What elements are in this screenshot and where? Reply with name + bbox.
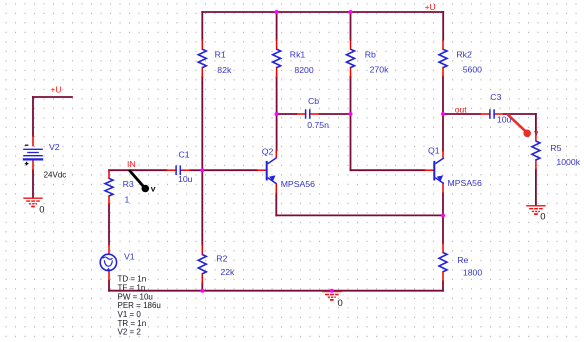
svg-text:Rb: Rb bbox=[365, 50, 376, 60]
svg-text:v: v bbox=[151, 184, 156, 194]
svg-text:10u: 10u bbox=[497, 115, 512, 125]
svg-text:22k: 22k bbox=[220, 267, 235, 277]
svg-text:R5: R5 bbox=[550, 143, 561, 153]
svg-text:0.75n: 0.75n bbox=[307, 120, 329, 130]
svg-text:0: 0 bbox=[39, 204, 44, 215]
svg-text:Re: Re bbox=[457, 255, 468, 265]
svg-text:Q1: Q1 bbox=[428, 146, 440, 156]
svg-text:1800: 1800 bbox=[463, 268, 482, 278]
svg-text:0: 0 bbox=[338, 298, 343, 309]
svg-text:R3: R3 bbox=[123, 179, 134, 189]
svg-text:1000k: 1000k bbox=[556, 157, 580, 167]
svg-text:MPSA56: MPSA56 bbox=[448, 178, 482, 188]
svg-text:MPSA56: MPSA56 bbox=[281, 179, 315, 189]
svg-text:TD = 1n: TD = 1n bbox=[118, 275, 147, 284]
svg-text:0: 0 bbox=[540, 212, 545, 223]
svg-text:Q2: Q2 bbox=[262, 146, 274, 156]
svg-text:PW = 10u: PW = 10u bbox=[118, 292, 153, 301]
svg-text:PER = 186u: PER = 186u bbox=[118, 301, 161, 310]
svg-text:V1: V1 bbox=[124, 252, 135, 262]
svg-text:C1: C1 bbox=[179, 150, 190, 160]
svg-text:5600: 5600 bbox=[463, 64, 482, 74]
svg-text:10u: 10u bbox=[178, 174, 193, 184]
svg-text:Rk1: Rk1 bbox=[290, 50, 306, 60]
svg-text:C3: C3 bbox=[490, 92, 501, 102]
svg-text:8200: 8200 bbox=[294, 65, 313, 75]
svg-text:out: out bbox=[455, 104, 467, 114]
svg-text:270k: 270k bbox=[370, 64, 389, 74]
svg-text:Rk2: Rk2 bbox=[456, 50, 472, 60]
svg-text:Cb: Cb bbox=[308, 96, 319, 106]
svg-text:+U: +U bbox=[425, 2, 436, 12]
svg-text:V2: V2 bbox=[49, 142, 60, 152]
svg-text:IN: IN bbox=[127, 159, 136, 169]
svg-text:V1 = 0: V1 = 0 bbox=[118, 310, 142, 319]
svg-text:V2 = 2: V2 = 2 bbox=[118, 328, 142, 337]
svg-text:R2: R2 bbox=[216, 254, 227, 264]
svg-text:TF = 1n: TF = 1n bbox=[118, 283, 146, 292]
svg-text:TR = 1n: TR = 1n bbox=[118, 319, 147, 328]
svg-text:R1: R1 bbox=[215, 49, 226, 59]
svg-text:24Vdc: 24Vdc bbox=[44, 171, 67, 180]
svg-text:1: 1 bbox=[125, 195, 130, 205]
svg-text:v: v bbox=[534, 129, 538, 138]
svg-text:82k: 82k bbox=[217, 65, 232, 75]
svg-text:+U: +U bbox=[50, 85, 61, 95]
